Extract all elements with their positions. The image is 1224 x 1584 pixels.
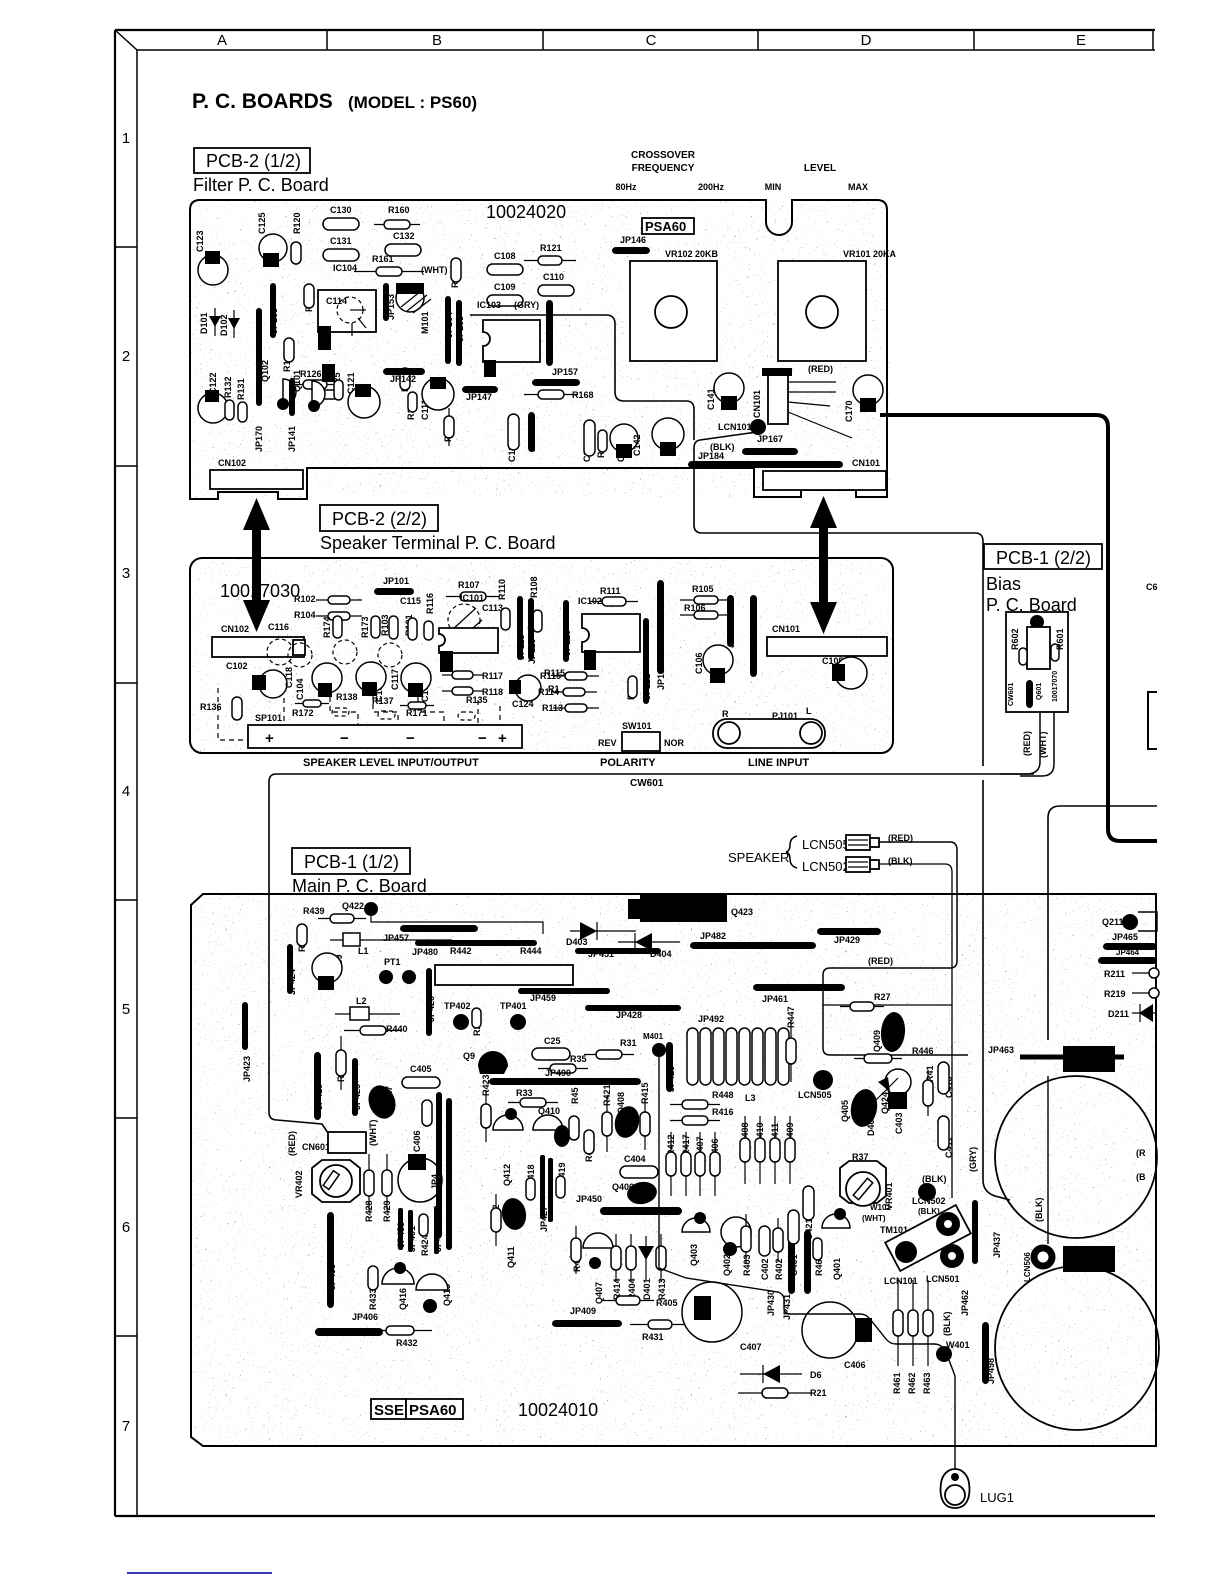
jumper bias [1026,680,1033,708]
IC IC101 body [439,628,498,672]
jumper JP146 [612,247,650,254]
svg-text:C106: C106 [694,652,704,674]
svg-text:R433: R433 [368,1288,378,1310]
label box PSA60 main [406,1399,463,1419]
svg-text:C404: C404 [624,1154,646,1164]
svg-text:CN102: CN102 [221,624,249,634]
svg-text:CW601: CW601 [1008,683,1015,706]
svg-text:PT1: PT1 [384,957,401,967]
transistor Q408 [611,1103,642,1140]
svg-text:JP480: JP480 [412,947,438,957]
diode D211 [1132,1004,1157,1022]
jumper JP120 [563,600,569,662]
svg-text:C118: C118 [284,667,294,688]
capacitor C121 [348,384,380,418]
resistor R117 [442,671,483,679]
transistor Q403 [682,1212,710,1232]
resistor R430 [584,1130,594,1154]
jumper JP406 [315,1328,383,1336]
svg-text:R431: R431 [642,1332,664,1342]
svg-text:R102: R102 [294,594,316,604]
svg-text:(RED): (RED) [868,956,893,966]
svg-text:C25: C25 [544,1036,561,1046]
svg-text:R114: R114 [538,687,559,697]
svg-text:R138: R138 [336,692,358,702]
lug LUG1 [941,1469,970,1508]
svg-text:5: 5 [122,1001,130,1018]
resistor R424 [419,1214,428,1236]
resistor R448 [670,1100,720,1109]
svg-text:C109: C109 [494,282,516,292]
pin M401 [652,1043,666,1057]
resistor R160 [374,220,420,229]
capacitor mark 2 [362,682,377,696]
resistor R429 [382,1154,392,1212]
test point TP402 [453,1014,469,1030]
jumper JP101 [374,588,414,595]
plug LCN502 [846,857,879,872]
jumper JP153 [383,283,389,321]
svg-text:JP184: JP184 [698,451,724,461]
svg-text:JP101: JP101 [383,576,409,586]
wire GRY net down right side [983,780,1010,1200]
transistor Q401 [822,1208,850,1228]
IC IC103 body [483,320,540,377]
svg-text:VR102 20KB: VR102 20KB [665,249,719,259]
pin LCN505 main [813,1070,833,1090]
capacitor C403 [888,1092,907,1109]
svg-text:R448: R448 [712,1090,734,1100]
speaker hole upper [995,1076,1157,1238]
svg-text:VR402: VR402 [294,1170,304,1198]
bias board outline [1006,612,1068,712]
capacitor C110 [538,285,574,296]
jack PJ101 [713,719,825,748]
jumper JP136 [657,580,664,674]
jumper JP167 [742,448,798,455]
inductor L1 [330,933,452,946]
transistor Q101a [277,379,296,410]
resistor R219 lead [1132,988,1159,998]
svg-text:C406: C406 [412,1130,422,1152]
resistor R439 [318,914,366,923]
svg-text:Bias: Bias [986,574,1021,594]
resistor R106 [680,611,732,619]
pin R602 top [1030,615,1044,629]
svg-text:JP464: JP464 [1116,948,1140,957]
pin Q402 [723,1242,737,1256]
potentiometer VR101 [778,261,866,361]
transistor Q423 [628,895,727,922]
jumper JP498 [982,1322,989,1384]
capacitor C404 [620,1166,658,1178]
wire M401 to W401 [659,1056,944,1352]
svg-text:C405: C405 [410,1064,432,1074]
svg-text:R413: R413 [657,1278,667,1300]
transistor Q411 [499,1196,528,1232]
jumper JP157 [532,379,580,386]
capacitor C116 [267,639,293,665]
svg-text:R439: R439 [303,906,325,916]
svg-text:JP463: JP463 [988,1045,1014,1055]
jumper JP482 [690,942,816,949]
wire bias WHT [1020,712,1054,776]
svg-text:JP430: JP430 [766,1290,776,1316]
svg-text:JP141: JP141 [287,426,297,452]
diode D403 [570,922,636,940]
svg-text:JP465: JP465 [1112,932,1138,942]
svg-text:R132: R132 [223,376,233,398]
svg-text:C125: C125 [257,212,267,234]
svg-text:R21: R21 [810,1388,827,1398]
wire W401 to LUG1 [949,1360,955,1474]
jumper JP463 lead [1020,1055,1124,1060]
svg-text:R211: R211 [1104,969,1125,979]
resistor array R444 [435,965,573,985]
capacitor C143 [315,390,339,399]
svg-text:IC103: IC103 [477,300,501,310]
resistor R171 [400,702,434,709]
svg-text:JP459: JP459 [530,993,556,1003]
resistor R461 center [813,1238,822,1260]
terminal LCN506 [1034,1248,1052,1266]
svg-text:C132: C132 [393,231,415,241]
svg-text:R35: R35 [570,1054,587,1064]
svg-text:R126: R126 [300,369,322,379]
svg-text:C6: C6 [1146,582,1158,592]
svg-text:L2: L2 [356,996,367,1006]
jumper JP119 [528,598,534,660]
arrow CN102 mating [243,498,270,632]
svg-text:R33: R33 [516,1088,533,1098]
resistor R33 [508,1098,558,1107]
svg-text:R416: R416 [712,1107,734,1117]
resistor R115 [553,672,599,680]
resistor R41 [923,1070,933,1116]
svg-text:(BLK): (BLK) [1034,1198,1044,1223]
jumper JP409 v [434,1206,439,1254]
svg-text:(GRY): (GRY) [968,1147,978,1172]
resistor R428 [364,1154,374,1212]
resistor R45 [569,1116,579,1140]
diode D6 [740,1365,802,1383]
resistor R114 [551,688,597,696]
svg-text:PSA60: PSA60 [645,219,686,234]
resistor R21 [738,1388,812,1398]
jumper JP118 [517,596,523,660]
capacitor C136 [584,420,595,456]
svg-text:10017030: 10017030 [220,581,300,601]
jumper JP164 [445,296,451,364]
jumper JP432 [972,1200,978,1264]
svg-text:PCB-2 (1/2): PCB-2 (1/2) [206,151,301,171]
jumper JP490 [489,1078,641,1085]
speaker board outline [190,558,893,753]
capacitor C122 [198,390,228,423]
capacitor C25 [532,1048,570,1060]
svg-text:PCB-2 (2/2): PCB-2 (2/2) [332,509,427,529]
pin Q422 [364,902,378,916]
resistor R405 [602,1296,654,1305]
svg-text:LCN502: LCN502 [912,1196,946,1206]
capacitor C108 [487,264,523,275]
resistor R31 [584,1050,634,1059]
svg-text:SW101: SW101 [622,721,652,731]
svg-text:R461: R461 [892,1372,902,1394]
svg-text:IC104: IC104 [333,263,357,273]
svg-text:R424: R424 [420,1234,430,1256]
svg-text:R602: R602 [1010,628,1020,650]
connector CN102 speaker board [212,637,305,657]
svg-text:JP157: JP157 [552,367,578,377]
svg-text:LEVEL: LEVEL [804,163,836,174]
label box PSA60 [642,218,694,234]
svg-text:POLARITY: POLARITY [600,757,656,769]
svg-text:CN102: CN102 [218,458,246,468]
resistor R440 [344,1026,402,1035]
transistor Q speaker 3 [401,663,431,693]
resistor R29 [472,1008,481,1028]
border frame [115,30,1155,1516]
svg-text:R405: R405 [656,1298,678,1308]
resistor R107 [446,592,500,601]
dashed transistor C117a [333,640,357,664]
pin PT1 b [402,970,416,984]
wire bias RED [1000,712,1040,774]
jumper JP166 [546,300,553,366]
resistor R211 lead [1132,968,1159,978]
svg-text:D402: D402 [866,1114,876,1136]
svg-text:R104: R104 [294,610,316,620]
label box PCB-2 (1/2) [194,148,310,173]
capacitor C123 [198,251,228,285]
capacitor C119 mark [318,326,331,350]
resistor R121 [524,256,576,265]
svg-text:R172: R172 [292,708,314,718]
svg-text:FREQUENCY: FREQUENCY [632,163,695,174]
svg-text:R402: R402 [774,1258,784,1280]
svg-text:JP147: JP147 [466,392,492,402]
svg-text:R173: R173 [360,616,370,638]
pin Q211 [1122,914,1138,930]
svg-text:M101: M101 [420,311,430,334]
svg-text:JP167: JP167 [757,434,783,444]
small cap R101 [408,618,417,640]
wire speaker BLK [879,864,952,1198]
jumper JP121 [643,618,649,704]
jumper JP403 [436,1092,442,1238]
svg-text:D101: D101 [199,312,209,334]
transistor Q417 [364,1082,400,1123]
resistor R422 main [491,1194,501,1246]
svg-text:10017070: 10017070 [1052,671,1059,702]
svg-text:R219: R219 [1104,989,1126,999]
transistor Q410 [533,1115,563,1130]
resistor R127 [284,338,294,362]
resistor R434 [336,1036,346,1090]
jumper JP428 [585,1005,681,1011]
svg-text:(R: (R [1136,1148,1146,1158]
svg-text:LCN505: LCN505 [798,1090,832,1100]
wire speaker RED [823,842,968,1055]
svg-text:R444: R444 [520,946,542,956]
svg-text:Q416: Q416 [398,1288,408,1310]
svg-text:TP402: TP402 [444,1001,471,1011]
capacitor C406 main [398,1154,442,1202]
resistor R126 [295,380,335,389]
jumper JP451 [575,948,661,954]
small cap R173 [371,616,380,638]
svg-text:LCN502: LCN502 [802,859,850,874]
svg-text:R113: R113 [542,703,563,713]
label box PCB-2 (2/2) [320,505,438,531]
svg-text:C421: C421 [804,1218,814,1240]
transistor Q416 [382,1262,414,1284]
resistor R27 [840,1002,884,1011]
svg-text:Speaker Terminal P. C. Board: Speaker Terminal P. C. Board [320,533,555,553]
svg-text:L1: L1 [358,946,369,956]
svg-text:JP146: JP146 [620,235,646,245]
resistor R402 [773,1218,783,1262]
svg-text:−: − [478,730,487,747]
resistor R131 [238,402,247,422]
svg-text:R107: R107 [458,580,480,590]
resistor R123 [408,392,417,412]
svg-text:TP401: TP401 [500,1001,527,1011]
svg-text:R440: R440 [386,1024,408,1034]
capacitor bias right [1051,644,1059,661]
svg-text:LUG1: LUG1 [980,1490,1014,1505]
transistor Q9 [478,1051,508,1074]
pin W401 [936,1346,952,1362]
capacitor C102 [252,670,287,698]
resistor R441 [297,924,307,946]
wire Q422 [371,916,543,934]
svg-text:C402: C402 [760,1258,770,1280]
svg-text:Q402: Q402 [722,1254,732,1276]
capacitor C130 [323,218,359,230]
resistor R125 [334,380,343,400]
svg-text:R111: R111 [600,586,621,596]
svg-text:C116: C116 [268,622,289,632]
jumper JP141 [289,378,295,416]
jumper JP424 [287,944,293,994]
svg-text:Q211: Q211 [1102,917,1124,927]
svg-text:P. C. BOARDS: P. C. BOARDS [192,90,333,113]
capacitor C402 [759,1226,770,1256]
svg-text:JP428: JP428 [616,1010,642,1020]
svg-text:R131: R131 [236,378,246,400]
svg-text:JP498: JP498 [986,1358,996,1384]
svg-text:JP429: JP429 [834,935,860,945]
resistor R35 [538,1064,588,1073]
transistor Q407 [583,1233,613,1269]
resistor R111 [590,597,638,606]
resistor R159 [451,258,461,282]
jumper JP461 [753,984,845,991]
svg-text:C114: C114 [326,296,347,306]
resistor R415 [640,1098,650,1150]
resistor R416 [670,1116,720,1125]
svg-text:C: C [646,32,657,49]
resistor R168 [524,390,578,399]
svg-text:Filter P. C. Board: Filter P. C. Board [193,175,329,195]
resistor R124 [400,368,410,390]
svg-text:4: 4 [122,783,130,800]
capacitor C131 [323,249,359,261]
capacitor mark 1 [318,683,332,697]
jumper JP148 [528,412,535,452]
jumper JP409 [552,1320,622,1327]
svg-text:R174: R174 [322,616,332,638]
jumper JP426 [426,968,432,1036]
svg-text:PCB-1 (2/2): PCB-1 (2/2) [996,548,1091,568]
jumper JP401 [408,1210,413,1252]
svg-text:JP170: JP170 [254,426,264,452]
svg-text:C142: C142 [632,434,642,456]
resistor R425 [422,1100,432,1126]
capacitor C124 [509,675,541,701]
transistor Q101b [308,381,325,412]
svg-text:Q409: Q409 [872,1030,882,1052]
jumper JP457 a [400,925,478,932]
svg-text:R115: R115 [540,671,561,681]
svg-text:C104: C104 [295,678,305,700]
svg-text:JP423: JP423 [242,1056,252,1082]
svg-text:JP482: JP482 [700,931,726,941]
capacitor C405 [402,1077,440,1088]
resistor R447 [786,1020,796,1082]
jumper JP430 [788,1232,795,1294]
test point TP401 [510,1014,526,1030]
transistor Q405 [848,1087,880,1129]
diode D101 [209,308,221,336]
jumper JP429 [817,928,881,935]
svg-text:R45: R45 [570,1087,580,1104]
capacitor C401 [788,1210,799,1244]
svg-text:CN101: CN101 [772,624,800,634]
svg-text:C108: C108 [494,251,516,261]
jumper JP423 [242,1002,248,1050]
resistor R118 [442,687,483,695]
connector CN102 box [210,470,303,489]
svg-text:Q423: Q423 [731,907,753,917]
svg-text:JP457: JP457 [383,933,409,943]
diode D404 [618,933,680,951]
svg-text:LINE INPUT: LINE INPUT [748,757,809,769]
wire IC103 to LCN101 [470,315,694,440]
svg-text:R108: R108 [529,576,539,598]
transistor Q speaker 1 [312,663,342,693]
svg-text:+: + [498,730,507,747]
transistor M101 body [396,283,431,313]
svg-text:C123: C123 [195,230,205,252]
capacitor C132 [385,244,421,256]
thermal unit TM101 [885,1205,971,1271]
svg-text:LCN501: LCN501 [926,1274,960,1284]
svg-text:W101: W101 [870,1203,891,1212]
svg-text:JP406: JP406 [352,1312,378,1322]
svg-text:LCN505: LCN505 [802,837,850,852]
transistor Q412 [493,1108,523,1130]
transistor Q409 [879,1011,906,1053]
svg-text:C102: C102 [226,661,248,671]
svg-text:(RED): (RED) [808,364,833,374]
capacitor R136 [232,697,242,720]
capacitor C111 [422,377,454,410]
svg-text:(B: (B [1136,1172,1146,1182]
svg-text:CN601: CN601 [302,1142,330,1152]
